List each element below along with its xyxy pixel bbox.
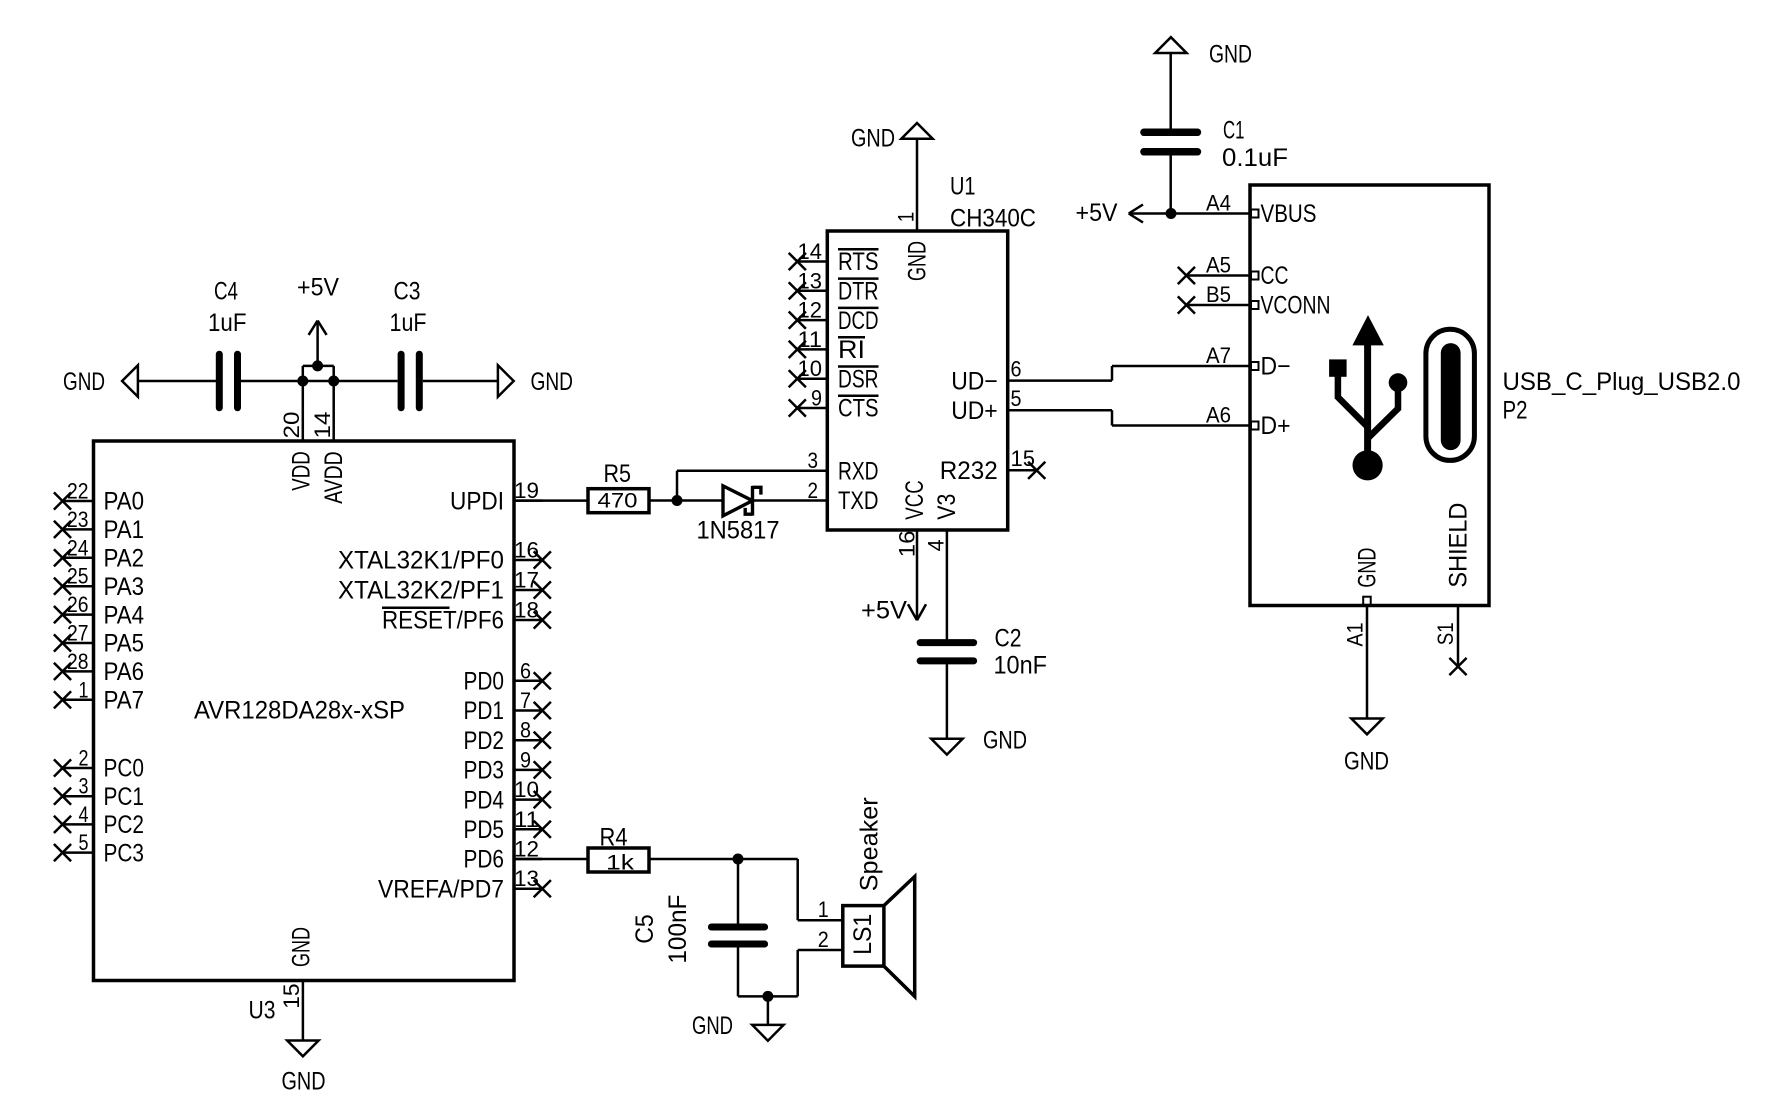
svg-text:LS1: LS1 [849,914,877,955]
svg-text:GND: GND [1354,548,1382,588]
svg-text:470: 470 [598,490,638,513]
svg-text:CTS: CTS [838,395,879,423]
svg-text:3: 3 [808,448,819,473]
svg-text:9: 9 [811,386,822,411]
svg-text:15: 15 [1011,446,1036,471]
svg-text:Speaker: Speaker [856,797,884,891]
svg-text:8: 8 [520,718,531,743]
svg-text:27: 27 [67,621,89,646]
svg-text:VBUS: VBUS [1261,200,1317,228]
svg-text:A7: A7 [1206,343,1231,368]
svg-text:3: 3 [79,774,89,799]
svg-text:24: 24 [67,535,89,560]
svg-text:U1: U1 [950,173,976,201]
svg-text:16: 16 [894,531,919,558]
svg-text:GND: GND [531,368,574,396]
svg-text:B5: B5 [1206,282,1231,307]
svg-text:U3: U3 [249,997,276,1025]
svg-text:PC3: PC3 [104,839,145,867]
svg-text:1: 1 [79,677,89,702]
svg-text:GND: GND [904,241,932,281]
svg-text:100nF: 100nF [664,895,692,964]
svg-text:A1: A1 [1343,623,1368,647]
svg-text:2: 2 [808,478,819,503]
svg-text:1N5817: 1N5817 [697,517,780,545]
svg-text:GND: GND [983,727,1027,755]
svg-text:S1: S1 [1433,622,1458,645]
svg-text:2: 2 [79,746,89,771]
svg-text:CH340C: CH340C [950,205,1036,233]
svg-text:RXD: RXD [838,457,879,485]
svg-text:R4: R4 [600,824,628,852]
svg-text:CC: CC [1261,262,1289,290]
svg-text:GND: GND [851,125,895,153]
svg-text:D−: D− [1261,353,1291,381]
svg-text:11: 11 [514,807,539,832]
svg-text:PA5: PA5 [104,630,145,658]
svg-text:RI: RI [838,336,865,364]
svg-text:C4: C4 [214,278,238,306]
svg-text:DCD: DCD [838,307,879,335]
svg-text:UD+: UD+ [951,397,998,425]
svg-text:13: 13 [798,268,823,293]
svg-text:XTAL32K2/PF1: XTAL32K2/PF1 [338,577,504,605]
svg-text:15: 15 [279,984,304,1009]
svg-text:25: 25 [67,564,89,589]
svg-text:UD−: UD− [951,367,998,395]
svg-text:GND: GND [288,927,316,967]
svg-text:PD1: PD1 [464,697,505,725]
svg-text:RESET/PF6: RESET/PF6 [382,607,504,635]
svg-text:9: 9 [520,747,531,772]
svg-text:4: 4 [79,802,89,827]
svg-text:VCC: VCC [901,480,929,520]
svg-text:PA0: PA0 [104,488,145,516]
svg-text:2: 2 [818,927,829,952]
svg-text:10: 10 [798,356,823,381]
svg-text:GND: GND [282,1068,326,1096]
svg-text:AVR128DA28x-xSP: AVR128DA28x-xSP [194,696,405,724]
svg-text:RTS: RTS [838,248,879,276]
svg-text:SHIELD: SHIELD [1445,503,1473,588]
svg-text:PA7: PA7 [104,687,145,715]
svg-text:USB_C_Plug_USB2.0: USB_C_Plug_USB2.0 [1503,368,1741,396]
svg-text:XTAL32K1/PF0: XTAL32K1/PF0 [338,547,504,575]
svg-text:PD5: PD5 [464,816,505,844]
svg-text:A6: A6 [1206,403,1231,428]
svg-text:R5: R5 [604,460,632,488]
svg-text:AVDD: AVDD [320,451,348,504]
svg-text:26: 26 [67,592,89,617]
svg-text:5: 5 [1011,386,1022,411]
svg-text:6: 6 [1011,357,1022,382]
svg-text:VREFA/PD7: VREFA/PD7 [378,875,504,903]
svg-text:16: 16 [514,538,539,563]
svg-text:A4: A4 [1206,191,1231,216]
svg-text:PD3: PD3 [464,757,505,785]
svg-text:14: 14 [798,239,823,264]
svg-text:13: 13 [514,866,539,891]
svg-text:4: 4 [923,539,948,551]
svg-text:UPDI: UPDI [450,487,504,515]
svg-text:+5V: +5V [861,597,907,625]
svg-text:5: 5 [79,830,89,855]
svg-text:C1: C1 [1223,117,1245,145]
svg-text:PA2: PA2 [104,545,145,573]
svg-text:PC0: PC0 [104,755,145,783]
svg-text:P2: P2 [1503,397,1528,425]
svg-text:1uF: 1uF [208,309,247,337]
svg-text:28: 28 [67,649,89,674]
svg-text:C3: C3 [394,278,421,306]
svg-text:10nF: 10nF [994,652,1048,680]
svg-text:GND: GND [1209,41,1252,69]
svg-text:GND: GND [692,1012,733,1040]
svg-text:C5: C5 [631,914,659,944]
svg-text:1: 1 [894,212,919,223]
svg-text:PD4: PD4 [464,786,505,814]
svg-text:PA4: PA4 [104,601,145,629]
svg-text:+5V: +5V [1076,199,1118,227]
svg-text:17: 17 [514,568,539,593]
svg-text:1k: 1k [606,852,635,875]
svg-text:D+: D+ [1261,412,1291,440]
svg-text:V3: V3 [933,494,961,520]
svg-text:PD2: PD2 [464,727,505,755]
svg-text:TXD: TXD [838,487,879,515]
svg-text:C2: C2 [995,625,1022,653]
svg-text:PD6: PD6 [464,846,505,874]
svg-text:VCONN: VCONN [1261,292,1331,320]
svg-text:0.1uF: 0.1uF [1222,144,1288,172]
svg-text:23: 23 [67,507,89,532]
svg-text:DTR: DTR [838,278,879,306]
svg-text:22: 22 [67,479,89,504]
svg-text:10: 10 [514,777,539,802]
svg-text:GND: GND [1344,748,1389,776]
svg-text:PD0: PD0 [464,668,505,696]
svg-text:11: 11 [798,327,823,352]
svg-text:R232: R232 [940,457,998,485]
svg-text:PA1: PA1 [104,516,145,544]
svg-text:1uF: 1uF [390,309,427,337]
svg-text:A5: A5 [1206,253,1231,278]
svg-text:+5V: +5V [297,274,339,302]
svg-text:PA3: PA3 [104,573,145,601]
svg-text:PC1: PC1 [104,783,145,811]
svg-text:18: 18 [514,598,539,623]
svg-text:12: 12 [798,298,823,323]
svg-text:20: 20 [279,412,304,439]
svg-text:1: 1 [818,897,829,922]
svg-text:14: 14 [310,412,335,439]
svg-text:DSR: DSR [838,365,879,393]
svg-text:PC2: PC2 [104,811,145,839]
svg-text:VDD: VDD [288,451,316,490]
svg-text:PA6: PA6 [104,658,145,686]
svg-text:GND: GND [63,368,105,396]
svg-text:6: 6 [520,658,531,683]
svg-text:7: 7 [520,688,531,713]
